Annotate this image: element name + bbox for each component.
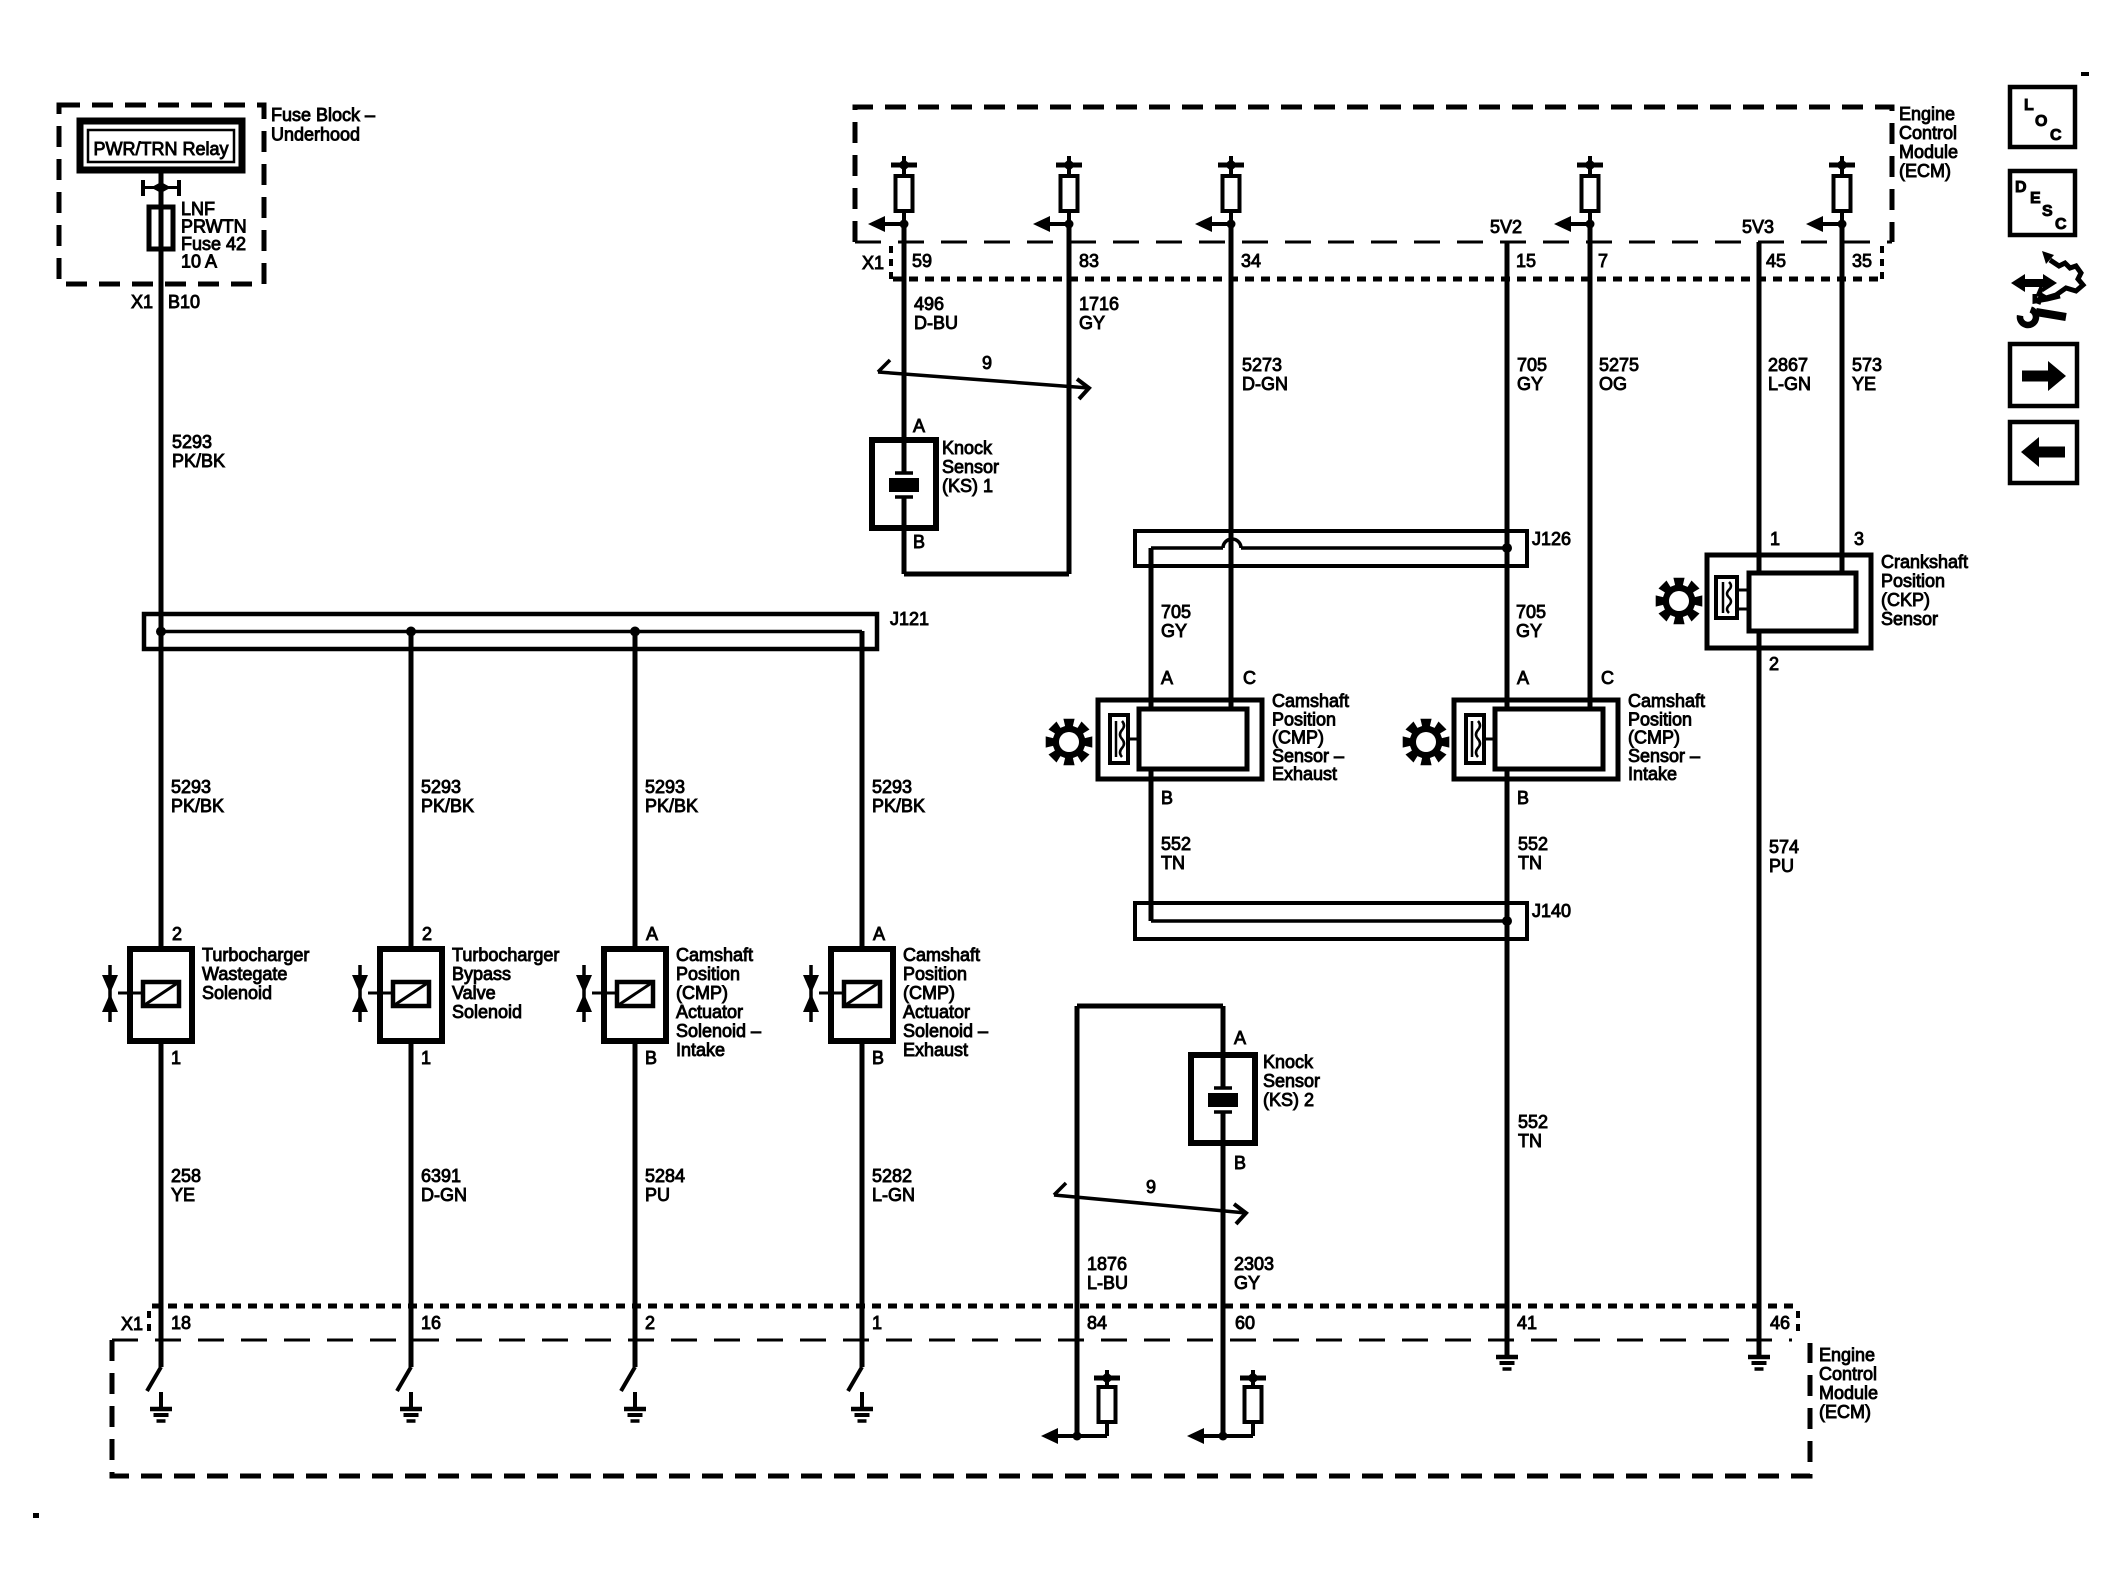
svg-text:OG: OG (1599, 374, 1627, 394)
svg-text:A: A (913, 416, 925, 436)
svg-text:46: 46 (1770, 1313, 1790, 1333)
svg-text:1: 1 (171, 1048, 181, 1068)
svg-text:5293: 5293 (171, 777, 211, 797)
svg-text:YE: YE (171, 1185, 195, 1205)
svg-text:PK/BK: PK/BK (645, 796, 698, 816)
svg-text:705: 705 (1161, 602, 1191, 622)
svg-text:C: C (2050, 127, 2062, 144)
svg-text:Actuator: Actuator (676, 1002, 743, 1022)
svg-text:PK/BK: PK/BK (872, 796, 925, 816)
svg-text:Position: Position (903, 964, 967, 984)
svg-text:Control: Control (1899, 123, 1957, 143)
svg-text:Position: Position (676, 964, 740, 984)
svg-text:1: 1 (872, 1313, 882, 1333)
svg-text:O: O (2035, 113, 2047, 130)
svg-text:34: 34 (1241, 251, 1261, 271)
svg-text:X1: X1 (131, 292, 153, 312)
svg-text:Intake: Intake (676, 1040, 725, 1060)
svg-text:5293: 5293 (421, 777, 461, 797)
svg-text:Camshaft: Camshaft (903, 945, 980, 965)
svg-text:J126: J126 (1532, 529, 1571, 549)
svg-text:15: 15 (1516, 251, 1536, 271)
svg-text:E: E (2030, 190, 2041, 207)
svg-text:18: 18 (171, 1313, 191, 1333)
svg-text:Fuse Block –: Fuse Block – (271, 105, 375, 125)
svg-text:B: B (872, 1048, 884, 1068)
svg-text:Turbocharger: Turbocharger (452, 945, 559, 965)
svg-text:J121: J121 (890, 609, 929, 629)
svg-text:Control: Control (1819, 1364, 1877, 1384)
svg-text:YE: YE (1852, 374, 1876, 394)
svg-text:2: 2 (422, 924, 432, 944)
svg-text:2: 2 (172, 924, 182, 944)
svg-text:Valve: Valve (452, 983, 496, 1003)
svg-text:GY: GY (1161, 621, 1187, 641)
svg-text:D-GN: D-GN (421, 1185, 467, 1205)
svg-text:S: S (2042, 203, 2053, 220)
svg-text:A: A (646, 924, 658, 944)
svg-text:(ECM): (ECM) (1819, 1402, 1871, 1422)
svg-text:35: 35 (1852, 251, 1872, 271)
svg-text:B: B (1234, 1153, 1246, 1173)
svg-text:2: 2 (645, 1313, 655, 1333)
svg-text:Exhaust: Exhaust (1272, 764, 1337, 784)
svg-text:X1: X1 (121, 1314, 143, 1334)
svg-text:TN: TN (1161, 853, 1185, 873)
svg-text:9: 9 (1146, 1177, 1156, 1197)
svg-text:Module: Module (1819, 1383, 1878, 1403)
svg-text:PK/BK: PK/BK (171, 796, 224, 816)
svg-text:705: 705 (1516, 602, 1546, 622)
svg-text:552: 552 (1161, 834, 1191, 854)
svg-text:258: 258 (171, 1166, 201, 1186)
svg-text:1716: 1716 (1079, 294, 1119, 314)
svg-text:496: 496 (914, 294, 944, 314)
svg-text:41: 41 (1517, 1313, 1537, 1333)
svg-text:Solenoid –: Solenoid – (903, 1021, 988, 1041)
svg-text:PK/BK: PK/BK (421, 796, 474, 816)
svg-text:(KS) 1: (KS) 1 (942, 476, 993, 496)
svg-text:Solenoid –: Solenoid – (676, 1021, 761, 1041)
svg-text:2303: 2303 (1234, 1254, 1274, 1274)
svg-text:5293: 5293 (645, 777, 685, 797)
svg-text:A: A (1161, 668, 1173, 688)
svg-text:Solenoid: Solenoid (202, 983, 272, 1003)
svg-text:Intake: Intake (1628, 764, 1677, 784)
svg-text:GY: GY (1517, 374, 1543, 394)
svg-text:B10: B10 (168, 292, 200, 312)
svg-text:573: 573 (1852, 355, 1882, 375)
svg-text:C: C (1601, 668, 1614, 688)
svg-text:Sensor: Sensor (1263, 1071, 1320, 1091)
svg-text:552: 552 (1518, 834, 1548, 854)
svg-text:Module: Module (1899, 142, 1958, 162)
svg-text:PU: PU (1769, 856, 1794, 876)
svg-text:GY: GY (1234, 1273, 1260, 1293)
svg-text:A: A (1234, 1028, 1246, 1048)
svg-text:Sensor: Sensor (942, 457, 999, 477)
svg-text:Sensor –: Sensor – (1272, 746, 1344, 766)
svg-text:Position: Position (1272, 709, 1336, 729)
svg-text:B: B (1517, 788, 1529, 808)
svg-text:Position: Position (1881, 571, 1945, 591)
svg-text:84: 84 (1087, 1313, 1107, 1333)
svg-text:X1: X1 (862, 253, 884, 273)
svg-text:2867: 2867 (1768, 355, 1808, 375)
svg-text:Solenoid: Solenoid (452, 1002, 522, 1022)
svg-text:(CMP): (CMP) (1628, 728, 1680, 748)
svg-text:L-GN: L-GN (872, 1185, 915, 1205)
svg-text:59: 59 (912, 251, 932, 271)
svg-text:552: 552 (1518, 1112, 1548, 1132)
svg-text:5282: 5282 (872, 1166, 912, 1186)
svg-text:574: 574 (1769, 837, 1799, 857)
svg-text:PWR/TRN Relay: PWR/TRN Relay (93, 139, 228, 159)
svg-text:L-BU: L-BU (1087, 1273, 1128, 1293)
svg-text:Engine: Engine (1819, 1345, 1875, 1365)
svg-text:Actuator: Actuator (903, 1002, 970, 1022)
svg-text:7: 7 (1598, 251, 1608, 271)
svg-text:(ECM): (ECM) (1899, 161, 1951, 181)
svg-text:5V2: 5V2 (1490, 217, 1522, 237)
svg-text:Camshaft: Camshaft (676, 945, 753, 965)
svg-text:C: C (1243, 668, 1256, 688)
svg-text:2: 2 (1769, 654, 1779, 674)
svg-text:16: 16 (421, 1313, 441, 1333)
svg-text:83: 83 (1079, 251, 1099, 271)
svg-text:(CMP): (CMP) (676, 983, 728, 1003)
svg-text:PU: PU (645, 1185, 670, 1205)
svg-text:GY: GY (1516, 621, 1542, 641)
svg-text:D-BU: D-BU (914, 313, 958, 333)
svg-text:C: C (2055, 216, 2067, 233)
svg-text:1: 1 (1770, 529, 1780, 549)
svg-text:1876: 1876 (1087, 1254, 1127, 1274)
svg-text:Knock: Knock (1263, 1052, 1314, 1072)
svg-text:45: 45 (1766, 251, 1786, 271)
svg-text:PK/BK: PK/BK (172, 451, 225, 471)
svg-text:Sensor –: Sensor – (1628, 746, 1700, 766)
svg-text:705: 705 (1517, 355, 1547, 375)
svg-text:60: 60 (1235, 1313, 1255, 1333)
svg-text:B: B (1161, 788, 1173, 808)
svg-text:5275: 5275 (1599, 355, 1639, 375)
svg-text:Camshaft: Camshaft (1272, 691, 1349, 711)
svg-text:L: L (2024, 97, 2034, 114)
svg-text:D-GN: D-GN (1242, 374, 1288, 394)
svg-text:Position: Position (1628, 709, 1692, 729)
svg-text:L-GN: L-GN (1768, 374, 1811, 394)
svg-text:9: 9 (982, 353, 992, 373)
svg-text:10 A: 10 A (181, 252, 217, 272)
svg-text:Underhood: Underhood (271, 125, 360, 145)
svg-text:J140: J140 (1532, 901, 1571, 921)
svg-text:Sensor: Sensor (1881, 609, 1938, 629)
svg-text:(KS) 2: (KS) 2 (1263, 1090, 1314, 1110)
svg-text:5284: 5284 (645, 1166, 685, 1186)
svg-text:GY: GY (1079, 313, 1105, 333)
svg-text:B: B (913, 532, 925, 552)
svg-text:Camshaft: Camshaft (1628, 691, 1705, 711)
svg-text:(CMP): (CMP) (903, 983, 955, 1003)
svg-text:5293: 5293 (872, 777, 912, 797)
svg-text:1: 1 (421, 1048, 431, 1068)
svg-text:A: A (873, 924, 885, 944)
svg-text:Knock: Knock (942, 438, 993, 458)
svg-text:Engine: Engine (1899, 104, 1955, 124)
svg-text:(CMP): (CMP) (1272, 728, 1324, 748)
svg-text:TN: TN (1518, 1131, 1542, 1151)
svg-text:5273: 5273 (1242, 355, 1282, 375)
svg-text:6391: 6391 (421, 1166, 461, 1186)
svg-text:5V3: 5V3 (1742, 217, 1774, 237)
svg-text:5293: 5293 (172, 432, 212, 452)
svg-text:TN: TN (1518, 853, 1542, 873)
svg-text:(CKP): (CKP) (1881, 590, 1930, 610)
svg-text:Wastegate: Wastegate (202, 964, 287, 984)
svg-text:B: B (645, 1048, 657, 1068)
svg-text:Turbocharger: Turbocharger (202, 945, 309, 965)
svg-text:D: D (2015, 179, 2027, 196)
svg-text:Bypass: Bypass (452, 964, 511, 984)
svg-text:3: 3 (1854, 529, 1864, 549)
svg-text:A: A (1517, 668, 1529, 688)
svg-text:Crankshaft: Crankshaft (1881, 552, 1968, 572)
svg-text:Exhaust: Exhaust (903, 1040, 968, 1060)
